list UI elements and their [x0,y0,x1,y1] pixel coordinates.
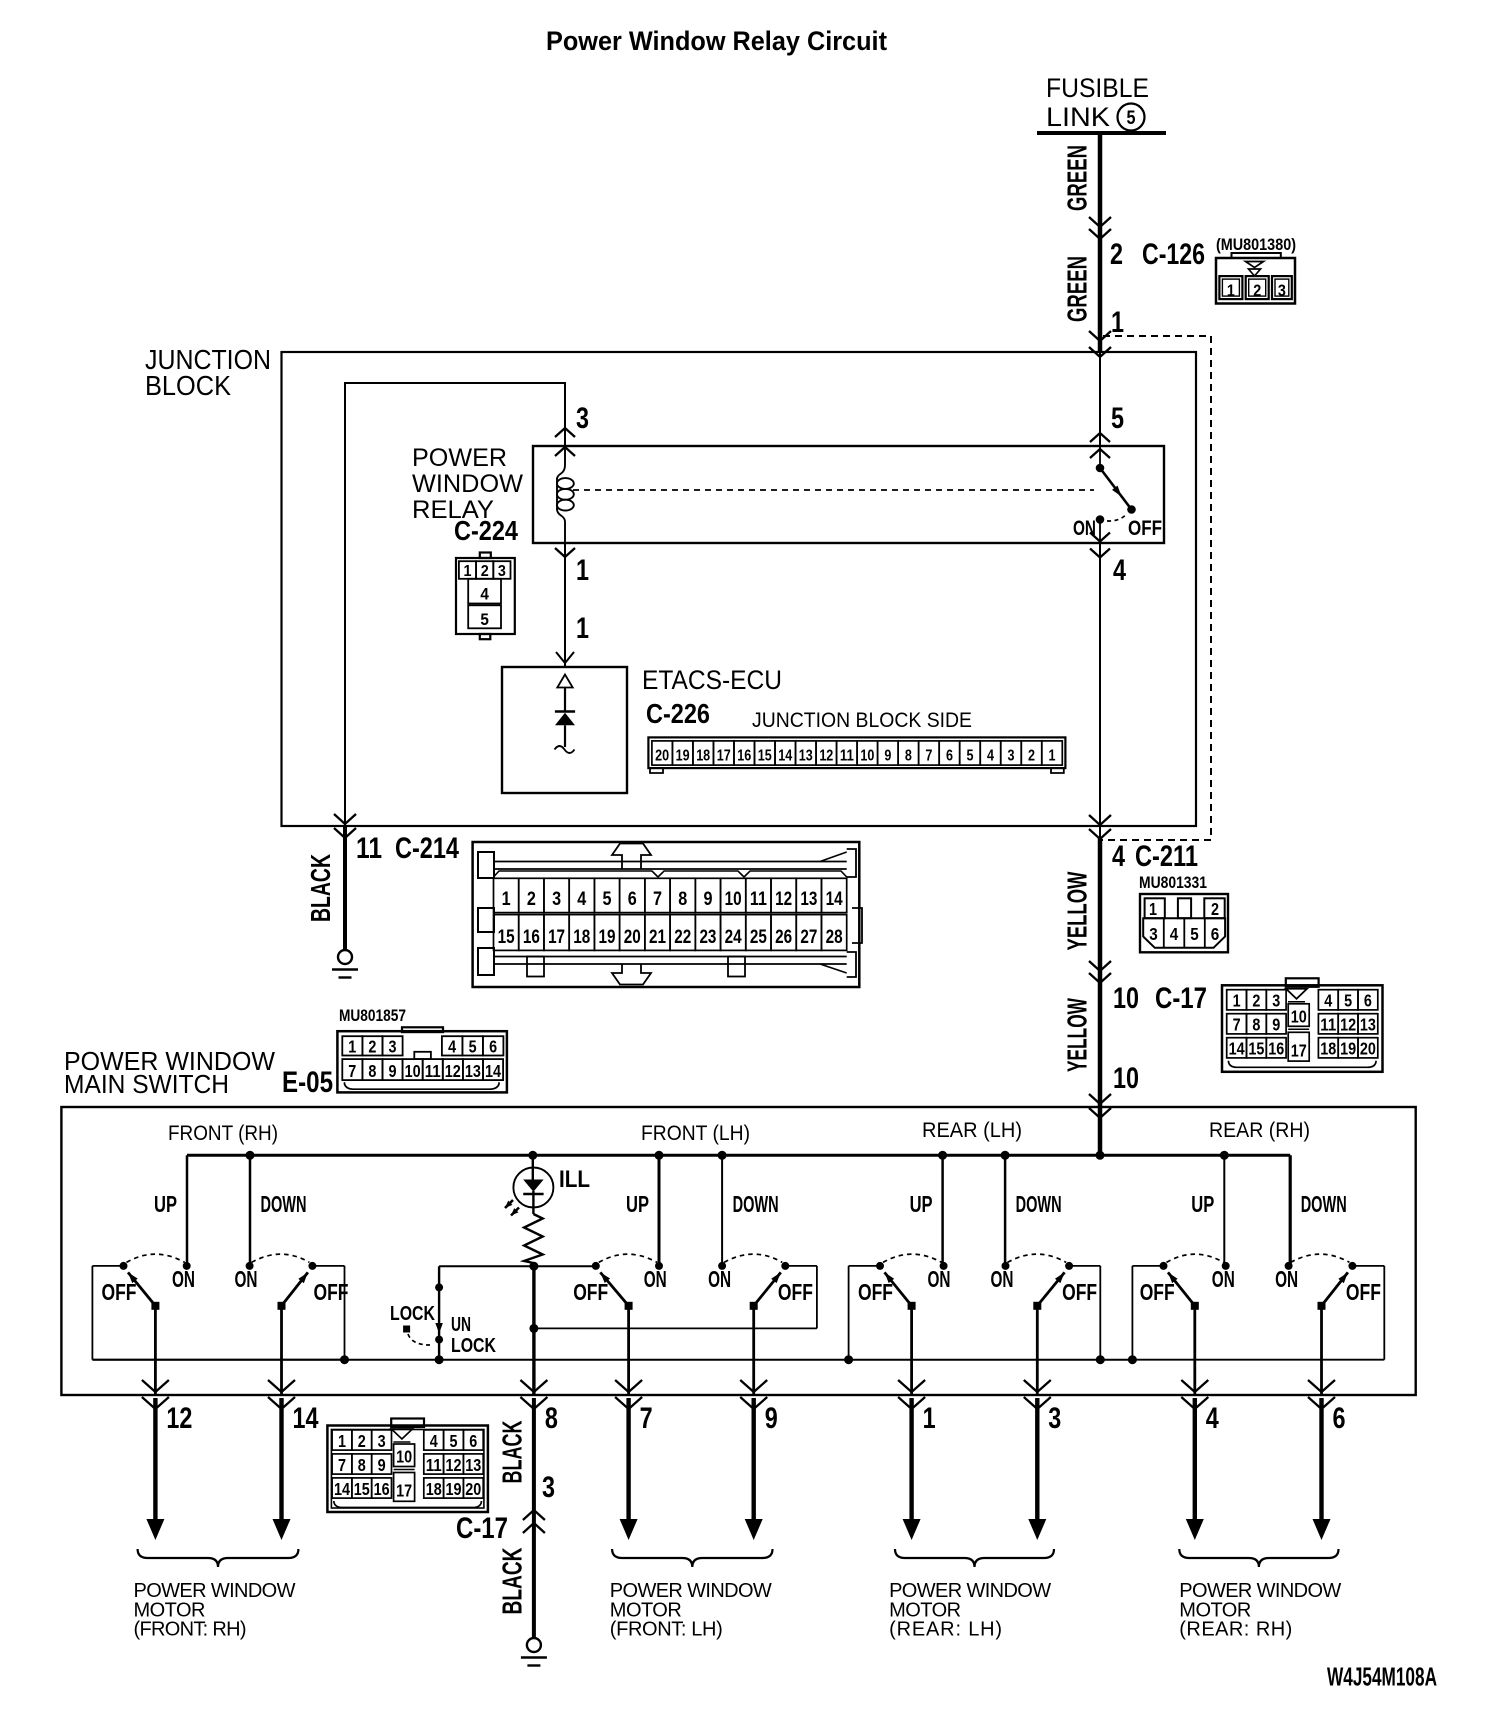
svg-text:FRONT (LH): FRONT (LH) [641,1122,750,1145]
svg-text:GREEN: GREEN [1062,256,1093,322]
svg-text:ON: ON [235,1266,258,1292]
svg-text:11: 11 [840,748,854,765]
rear RH window switch UP switch contacts [1160,1262,1168,1270]
svg-text:15: 15 [758,748,772,765]
svg-text:OFF: OFF [858,1279,893,1305]
circled 5 of fusible link [1118,104,1145,131]
svg-text:20: 20 [655,748,669,765]
svg-text:18: 18 [426,1479,442,1499]
wire from relay pin 1 to ETACS-ECU [564,543,566,666]
svg-text:OFF: OFF [573,1279,608,1305]
arrow chevrons at junction block exit [1089,815,1111,825]
power window motor output wire [1193,1398,1197,1522]
lock switch LOCK/UNLOCK [438,1266,440,1360]
svg-text:4: 4 [1112,840,1125,873]
svg-text:10: 10 [860,748,874,765]
svg-text:YELLOW: YELLOW [1062,871,1093,950]
svg-text:2: 2 [1110,238,1123,271]
svg-text:20: 20 [1360,1039,1376,1059]
output pin 12 chevrons at main switch bottom [142,1380,169,1392]
svg-text:BLACK: BLACK [497,1547,528,1614]
output pin 3 chevrons at main switch bottom [1024,1380,1051,1392]
front RH window switch switch unit box right edge [312,1265,344,1267]
svg-text:JUNCTION BLOCK SIDE: JUNCTION BLOCK SIDE [752,709,972,732]
svg-text:17: 17 [717,748,731,765]
arrow chevrons on black ground wire [334,814,356,824]
svg-text:ETACS-ECU: ETACS-ECU [642,665,782,695]
output pin 9 chevrons at main switch bottom [740,1380,767,1392]
brace for power window motor front RH [138,1549,299,1567]
front RH window switch UP switch dashed arc [127,1254,185,1262]
svg-text:19: 19 [676,748,690,765]
svg-text:4: 4 [448,1037,456,1057]
main switch box outline [61,1107,1415,1395]
svg-text:REAR (RH): REAR (RH) [1209,1119,1310,1142]
power window motor output wire [279,1398,283,1522]
rear RH window switch switch unit box left edge [1132,1265,1163,1267]
relay internal dashed link [573,489,1094,491]
fusible link bus bar [1037,131,1166,135]
wire YELLOW from junction block to C-17 [1099,826,1101,840]
svg-text:GREEN: GREEN [1062,145,1093,211]
svg-text:YELLOW: YELLOW [1062,998,1093,1072]
ETACS-ECU box U2 [502,667,627,793]
svg-text:24: 24 [725,927,742,948]
svg-text:15: 15 [498,927,515,948]
rear RH window switch DOWN wire [1289,1155,1292,1266]
svg-text:10: 10 [1113,1062,1139,1095]
front LH window switch DOWN switch contacts [718,1262,726,1270]
arrow chevrons above relay pin 5 [1090,433,1110,442]
rear LH window switch switch unit box right edge [1069,1265,1100,1267]
svg-text:6: 6 [489,1037,497,1057]
svg-text:OFF: OFF [1062,1279,1097,1305]
front LH window switch UP switch contacts [592,1262,600,1270]
svg-text:ON: ON [991,1266,1014,1292]
front RH window switch UP switch lever [151,1302,159,1310]
svg-text:20: 20 [624,927,641,948]
svg-text:14: 14 [1229,1039,1245,1059]
svg-text:9: 9 [884,748,891,765]
svg-text:5: 5 [450,1431,458,1451]
front RH window switch UP wire [186,1155,189,1266]
svg-text:DOWN: DOWN [261,1191,307,1217]
svg-text:12: 12 [445,1061,461,1081]
svg-text:4: 4 [1113,554,1126,587]
rear LH window switch UP output wire [910,1306,913,1395]
svg-text:5: 5 [966,748,973,765]
output pin 8 chevrons at main switch bottom [520,1380,547,1392]
rear RH window switch DOWN switch dashed arc [1291,1254,1350,1262]
svg-text:POWER: POWER [412,444,507,472]
svg-text:4: 4 [987,748,994,765]
svg-text:9: 9 [1272,1015,1280,1035]
dashed harness outline at junction block right [1102,336,1211,840]
svg-text:C-214: C-214 [395,832,459,865]
svg-text:8: 8 [678,889,687,910]
svg-text:C-126: C-126 [1142,238,1205,271]
svg-text:14: 14 [334,1479,350,1499]
svg-text:1: 1 [502,889,511,910]
svg-text:FUSIBLE: FUSIBLE [1046,73,1149,103]
rear LH window switch DOWN switch dashed arc [1008,1254,1067,1262]
rear RH window switch UP output wire [1193,1306,1196,1395]
front LH window switch DOWN switch dashed arc [724,1254,782,1262]
svg-text:UP: UP [1191,1191,1214,1217]
brace for power window motor rear LH [895,1549,1054,1567]
arrow chevron below relay pin 1 [555,548,575,557]
svg-text:ON: ON [1073,517,1096,540]
front LH window switch DOWN wire [721,1155,723,1266]
svg-text:MU801857: MU801857 [339,1006,406,1025]
LOCK position contact [403,1326,410,1333]
wire from junction block top to relay pin 5 [1099,352,1101,446]
svg-text:MAIN SWITCH: MAIN SWITCH [64,1069,229,1099]
svg-text:(MU801380): (MU801380) [1216,235,1296,254]
LED emission arrows [505,1200,513,1208]
svg-text:4: 4 [577,889,586,910]
svg-text:14: 14 [778,748,792,765]
svg-text:1: 1 [338,1431,346,1451]
svg-text:11: 11 [425,1061,441,1081]
rear RH window switch DOWN switch lever [1318,1302,1326,1310]
rear LH window switch DOWN wire [1004,1155,1007,1266]
svg-text:WINDOW: WINDOW [412,470,523,498]
power window relay box U1 [533,446,1164,543]
svg-text:REAR (LH): REAR (LH) [922,1119,1022,1142]
svg-text:26: 26 [775,927,792,948]
svg-text:C-17: C-17 [456,1512,508,1545]
lock switch dashed arc [408,1334,430,1345]
rear LH window switch switch unit box left edge [849,1265,880,1267]
svg-text:E-05: E-05 [282,1066,333,1099]
svg-text:1: 1 [576,612,589,645]
svg-text:11: 11 [356,832,382,865]
svg-text:LINK: LINK [1046,102,1110,132]
svg-text:DOWN: DOWN [1301,1191,1347,1217]
arrow chevrons on black wire [523,1510,545,1520]
svg-text:1: 1 [1111,306,1124,339]
front RH window switch UP switch contacts [120,1262,128,1270]
front RH window switch DOWN wire [249,1155,252,1266]
svg-text:2: 2 [1211,899,1219,919]
svg-text:17: 17 [1291,1040,1307,1060]
rear RH window switch UP switch lever [1191,1302,1199,1310]
svg-text:6: 6 [469,1431,477,1451]
svg-text:DOWN: DOWN [733,1191,779,1217]
svg-text:OFF: OFF [1140,1279,1175,1305]
lock switch top rail [439,1265,596,1267]
rear LH window switch UP switch lever [908,1302,916,1310]
svg-text:DOWN: DOWN [1016,1191,1062,1217]
svg-text:(REAR: LH): (REAR: LH) [889,1619,1002,1641]
svg-text:5: 5 [1127,108,1136,129]
svg-text:11: 11 [750,889,767,910]
svg-text:6: 6 [1211,924,1220,944]
svg-text:4: 4 [480,585,489,604]
front LH window switch switch unit box right edge [785,1265,817,1267]
svg-text:15: 15 [354,1479,370,1499]
svg-text:18: 18 [1320,1039,1336,1059]
svg-text:5: 5 [480,610,489,629]
svg-text:19: 19 [1340,1039,1356,1059]
svg-text:1: 1 [1149,899,1157,919]
svg-text:28: 28 [826,927,843,948]
svg-text:11: 11 [1320,1015,1336,1035]
front LH window switch UP wire [658,1155,661,1266]
rear LH window switch DOWN output wire [1036,1306,1039,1395]
front LH window switch DOWN switch lever [750,1302,758,1310]
front LH window switch UP switch lever [625,1302,633,1310]
connector C-226 pin strip [648,737,1065,768]
relay switch contact [1099,446,1101,468]
svg-text:5: 5 [469,1037,477,1057]
svg-text:14: 14 [826,889,843,910]
svg-text:5: 5 [1344,991,1352,1011]
svg-text:(FRONT: LH): (FRONT: LH) [610,1619,723,1641]
svg-text:16: 16 [374,1479,390,1499]
rear LH window switch DOWN switch contacts [1002,1262,1010,1270]
svg-text:10: 10 [1113,982,1139,1015]
connector C-17 pin diagram (right) [1286,978,1319,987]
svg-text:6: 6 [946,748,953,765]
svg-text:1: 1 [1049,748,1056,765]
svg-text:15: 15 [1248,1039,1264,1059]
svg-text:10: 10 [396,1447,412,1467]
svg-text:ON: ON [172,1266,195,1292]
wire from resistor to switch common and output 8 [532,1266,535,1395]
arrow chevrons on green wire [1089,217,1111,227]
svg-text:8: 8 [545,1402,558,1435]
svg-text:4: 4 [1324,991,1332,1011]
svg-text:ON: ON [1275,1266,1298,1292]
svg-text:1: 1 [923,1402,936,1435]
svg-text:13: 13 [465,1061,481,1081]
svg-text:ON: ON [708,1266,731,1292]
svg-text:14: 14 [293,1402,319,1435]
svg-text:12: 12 [775,889,792,910]
svg-text:5: 5 [1111,402,1124,435]
power window motor output wire [1035,1398,1039,1522]
svg-text:19: 19 [599,927,616,948]
arrow chevron below relay pin 4 [1090,533,1110,542]
svg-text:FRONT (RH): FRONT (RH) [168,1122,278,1145]
svg-text:13: 13 [465,1455,481,1475]
svg-text:11: 11 [426,1455,442,1475]
output pin 4 chevrons at main switch bottom [1181,1380,1208,1392]
svg-text:20: 20 [465,1479,481,1499]
power window motor output wire [1319,1398,1323,1522]
svg-text:4: 4 [430,1431,438,1451]
svg-text:2: 2 [1253,281,1261,300]
wire from relay pin 4 down to junction block bottom [1099,543,1101,826]
svg-text:12: 12 [1340,1015,1356,1035]
svg-text:1: 1 [576,554,589,587]
ground return bus at bottom of main switch [92,1359,1132,1361]
svg-text:1: 1 [1227,281,1235,300]
relay coil [557,446,565,479]
svg-text:27: 27 [800,927,817,948]
svg-text:2: 2 [1252,991,1260,1011]
svg-text:14: 14 [485,1061,501,1081]
ILL illumination LED [532,1155,534,1180]
front RH window switch UP output wire [154,1306,157,1395]
rear RH window switch DOWN output wire [1320,1306,1323,1395]
svg-text:1: 1 [1233,991,1241,1011]
wire yellow into main switch bus [1098,1107,1103,1155]
svg-text:W4J54M108A: W4J54M108A [1327,1664,1437,1692]
svg-text:7: 7 [925,748,932,765]
svg-text:OFF: OFF [102,1279,137,1305]
svg-text:17: 17 [548,927,565,948]
rear LH window switch UP wire [941,1155,944,1266]
power window motor output wire [153,1398,157,1522]
svg-text:10: 10 [405,1061,421,1081]
output pin 14 chevrons at main switch bottom [268,1380,295,1392]
svg-text:(FRONT: RH): (FRONT: RH) [134,1619,247,1641]
wire BLACK from pin 8 to ground [532,1398,536,1638]
svg-text:Power Window Relay Circuit: Power Window Relay Circuit [546,26,887,56]
front RH window switch DOWN output wire [280,1306,283,1395]
svg-text:13: 13 [800,889,817,910]
rear RH window switch UP switch dashed arc [1167,1254,1224,1262]
svg-text:23: 23 [699,927,716,948]
svg-text:UN: UN [451,1313,471,1336]
svg-text:18: 18 [696,748,710,765]
svg-text:MU801331: MU801331 [1139,873,1207,892]
junction dot lock switch to ground bus [435,1355,444,1364]
svg-text:10: 10 [725,889,742,910]
svg-text:LOCK: LOCK [451,1334,496,1357]
power window motor output wire [626,1398,630,1522]
svg-text:4: 4 [1170,924,1179,944]
front LH switch unit bottom edge to ILL wire [534,1327,817,1329]
svg-text:BLOCK: BLOCK [145,370,231,401]
svg-text:C-224: C-224 [454,515,518,546]
resistor below ILL LED [532,1191,534,1214]
svg-text:ON: ON [1212,1266,1235,1292]
svg-text:18: 18 [573,927,590,948]
svg-text:2: 2 [481,563,489,580]
front LH window switch UP output wire [627,1306,630,1395]
svg-text:OFF: OFF [1128,517,1162,540]
svg-text:9: 9 [378,1455,386,1475]
output pin 6 chevrons at main switch bottom [1308,1380,1335,1392]
svg-text:2: 2 [527,889,536,910]
front LH window switch UP switch dashed arc [599,1254,657,1262]
wire from relay pin 3 loop inside junction block [345,383,565,826]
ground symbol at bottom [527,1638,541,1652]
svg-text:21: 21 [649,927,666,948]
brace for power window motor rear RH [1179,1549,1338,1567]
arrow chevrons at main switch entry [1089,1094,1111,1104]
rear LH window switch UP switch dashed arc [883,1254,942,1262]
svg-text:3: 3 [552,889,561,910]
front RH window switch switch unit box bottom edge [92,1359,344,1361]
arrow chevrons on relay pin 3 wire [555,428,575,437]
output pin 7 chevrons at main switch bottom [615,1380,642,1392]
svg-text:ON: ON [644,1266,667,1292]
svg-text:9: 9 [765,1402,778,1435]
svg-text:13: 13 [799,748,813,765]
svg-text:BLACK: BLACK [497,1420,528,1483]
svg-text:3: 3 [1048,1402,1061,1435]
main switch supply bus wire [187,1154,1290,1157]
output pin 1 chevrons at main switch bottom [898,1380,925,1392]
svg-text:UP: UP [154,1191,177,1217]
front RH window switch DOWN switch dashed arc [252,1254,310,1262]
junction block outline [282,352,1197,826]
rear RH window switch switch unit box bottom edge [1132,1359,1384,1361]
svg-text:8: 8 [358,1455,366,1475]
arrowhead entering ETACS-ECU [556,652,574,663]
rear RH window switch switch unit box right edge [1352,1265,1384,1267]
svg-text:10: 10 [1291,1006,1307,1026]
svg-text:12: 12 [819,748,833,765]
ground symbol at C-214 [338,950,352,964]
svg-text:1: 1 [464,563,472,580]
connector C-214 pin diagram [473,842,860,987]
svg-text:3: 3 [1008,748,1015,765]
svg-text:6: 6 [1333,1402,1346,1435]
svg-text:3: 3 [542,1471,555,1504]
svg-text:7: 7 [338,1455,346,1475]
svg-text:16: 16 [523,927,540,948]
rear RH window switch UP wire [1223,1155,1225,1266]
svg-text:8: 8 [905,748,912,765]
svg-text:1: 1 [348,1037,356,1057]
rear RH window switch DOWN switch contacts [1285,1262,1293,1270]
rear LH window switch DOWN switch lever [1033,1302,1041,1310]
relay ON contact [1096,515,1105,524]
svg-text:25: 25 [750,927,767,948]
front RH window switch DOWN switch lever [278,1302,286,1310]
svg-text:8: 8 [1252,1015,1260,1035]
svg-text:19: 19 [446,1479,462,1499]
svg-text:OFF: OFF [314,1279,349,1305]
svg-text:9: 9 [389,1061,397,1081]
svg-text:LOCK: LOCK [390,1302,435,1325]
svg-text:3: 3 [1149,924,1158,944]
svg-text:ILL: ILL [559,1166,590,1193]
svg-text:17: 17 [396,1481,412,1501]
svg-text:7: 7 [1233,1015,1241,1035]
black ground wire [343,826,347,950]
svg-text:13: 13 [1360,1015,1376,1035]
svg-text:6: 6 [628,889,637,910]
svg-text:UP: UP [626,1191,649,1217]
svg-text:2: 2 [358,1431,366,1451]
svg-text:6: 6 [1364,991,1372,1011]
front RH window switch switch unit box left edge [92,1265,123,1267]
svg-text:(REAR: RH): (REAR: RH) [1179,1619,1292,1641]
svg-text:4: 4 [1206,1402,1219,1435]
bus junction dots [246,1151,255,1160]
svg-text:3: 3 [576,402,589,435]
rear LH window switch UP switch contacts [876,1262,884,1270]
svg-text:22: 22 [674,927,691,948]
svg-text:OFF: OFF [1346,1279,1381,1305]
svg-text:OFF: OFF [778,1279,813,1305]
svg-text:C-17: C-17 [1155,982,1207,1015]
svg-text:C-211: C-211 [1135,840,1198,873]
arrow chevrons on yellow wire mid [1089,961,1111,971]
relay switch dashed arc [1107,514,1127,521]
svg-text:2: 2 [368,1037,376,1057]
wire GREEN from fusible link to junction block pin 1 [1098,133,1103,352]
power window motor output wire [909,1398,913,1522]
svg-text:7: 7 [640,1402,653,1435]
